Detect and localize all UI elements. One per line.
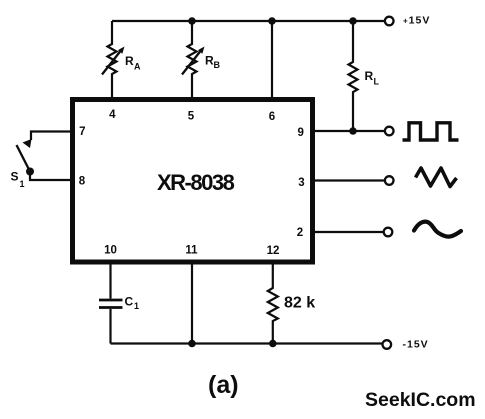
svg-text:XR-8038: XR-8038 [157, 170, 235, 195]
svg-text:7: 7 [79, 126, 85, 138]
svg-text:2: 2 [297, 227, 303, 239]
svg-text:S: S [11, 170, 19, 184]
svg-text:11: 11 [185, 245, 198, 257]
svg-text:9: 9 [297, 127, 303, 139]
svg-text:L: L [374, 77, 380, 87]
svg-text:R: R [125, 54, 134, 68]
svg-text:3: 3 [298, 177, 304, 189]
svg-text:B: B [214, 60, 221, 70]
svg-text:1: 1 [134, 301, 139, 311]
svg-text:1: 1 [20, 179, 25, 189]
svg-text:82 k: 82 k [284, 295, 315, 312]
svg-text:-15V: -15V [403, 339, 429, 351]
svg-text:12: 12 [267, 245, 280, 257]
svg-text:8: 8 [79, 176, 86, 188]
svg-text:C: C [125, 295, 134, 309]
svg-text:5: 5 [188, 111, 195, 123]
svg-text:4: 4 [109, 109, 116, 121]
svg-text:+15V: +15V [403, 15, 430, 27]
svg-text:(a): (a) [208, 371, 239, 399]
svg-text:SeekIC.com: SeekIC.com [365, 389, 476, 411]
svg-text:A: A [134, 62, 141, 72]
svg-text:10: 10 [104, 245, 117, 257]
svg-text:R: R [365, 69, 374, 83]
svg-text:6: 6 [269, 111, 275, 123]
